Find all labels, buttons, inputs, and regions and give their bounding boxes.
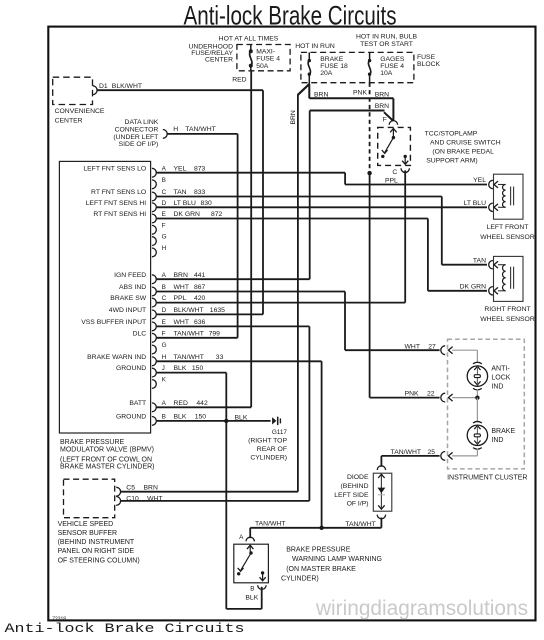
pin H of data link connector [163, 130, 167, 139]
pin C5 of VSS buffer [116, 487, 120, 496]
svg-text:150: 150 [192, 365, 204, 372]
wire TAN/WHT 33 down to warning lamp junction [321, 361, 323, 528]
pin D1 [93, 86, 97, 95]
svg-text:H: H [162, 354, 167, 361]
svg-text:REAR OF: REAR OF [257, 446, 287, 453]
svg-text:(RIGHT TOP: (RIGHT TOP [248, 437, 287, 444]
svg-text:BLK: BLK [174, 365, 187, 372]
pin E of BPMV [152, 322, 156, 331]
svg-text:867: 867 [194, 284, 206, 291]
svg-text:TAN/WHT: TAN/WHT [255, 521, 285, 528]
vehicle speed sensor buffer [64, 479, 115, 518]
svg-text:DLC: DLC [133, 330, 147, 337]
pin C10 of VSS buffer [116, 497, 120, 506]
svg-text:B: B [162, 177, 166, 184]
wire WHT 636 to VSS buffer C10 [308, 326, 310, 501]
wire TAN/WHT from diode to junction [377, 515, 385, 519]
svg-text:BRAKE: BRAKE [491, 428, 515, 435]
svg-text:C5: C5 [126, 484, 135, 491]
wire WHT 867 to instrument cluster pin 27 [344, 292, 346, 351]
svg-text:SENSOR BUFFER: SENSOR BUFFER [58, 530, 118, 537]
svg-text:442: 442 [196, 400, 208, 407]
svg-text:872: 872 [211, 211, 223, 218]
svg-text:PANEL ON RIGHT SIDE: PANEL ON RIGHT SIDE [58, 548, 135, 555]
wire BLK 150 from BPMV pin B [157, 420, 271, 422]
svg-text:SUPPORT ARM): SUPPORT ARM) [426, 158, 478, 165]
svg-text:RED: RED [232, 76, 246, 83]
wire TAN/WHT from cluster pin 25 to diode [381, 455, 439, 457]
svg-text:E: E [162, 319, 166, 326]
pin C of TCC switch [401, 168, 409, 172]
svg-text:C: C [392, 169, 397, 176]
pin 22 of instrument cluster [441, 393, 445, 402]
wire BRN diagonal from brake fuse [298, 84, 309, 95]
fuse block [301, 52, 414, 82]
wire TAN 833 from BPMV pin C [157, 196, 442, 198]
pin 2 of left front sensor [489, 203, 493, 211]
pin A of BPMV [152, 275, 156, 284]
svg-text:BRAKE WARN IND: BRAKE WARN IND [87, 354, 146, 361]
wire TAN jog to right front wheel sensor [441, 197, 443, 265]
wire BLK ground to brake warning switch pin B [225, 421, 227, 609]
svg-text:10A: 10A [380, 70, 393, 77]
svg-text:873: 873 [194, 165, 206, 172]
svg-text:G117: G117 [272, 429, 288, 436]
pin E of BPMV [152, 214, 156, 223]
anti-lock indicator lamp [467, 366, 487, 386]
svg-text:B: B [250, 586, 254, 593]
pin G of BPMV [152, 237, 156, 246]
switch A contact [247, 545, 253, 549]
svg-text:BATT: BATT [129, 400, 146, 407]
switch lever arm [241, 553, 251, 570]
svg-text:(ON MASTER BRAKE: (ON MASTER BRAKE [286, 566, 356, 573]
wire RED 442 from BPMV pin A [157, 406, 252, 408]
svg-text:RED: RED [174, 400, 188, 407]
wire WHT 636 from BPMV pin E [157, 325, 310, 327]
svg-text:F: F [162, 330, 166, 337]
wire RED from maxi-fuse to BPMV pin A [250, 71, 252, 408]
svg-text:IND: IND [491, 437, 503, 444]
wire TAN/WHT from junction to switch pin A [249, 528, 251, 538]
pin B of brake warning switch [258, 585, 266, 589]
left front wheel sensor box [494, 174, 524, 219]
svg-text:C: C [162, 295, 167, 302]
pin D of BPMV [152, 203, 156, 212]
svg-text:PNK: PNK [405, 391, 419, 398]
svg-text:G: G [162, 342, 167, 349]
svg-text:CONVENIENCE: CONVENIENCE [55, 108, 105, 115]
pin 1 of left front sensor [489, 180, 493, 188]
junction dot TAN/WHT [319, 526, 323, 530]
diode symbol [380, 474, 382, 509]
pin K of BPMV [152, 380, 156, 389]
svg-text:TCC/STOPLAMP: TCC/STOPLAMP [425, 130, 478, 137]
svg-text:LEFT SIDE: LEFT SIDE [334, 492, 369, 499]
svg-text:TAN/WHT: TAN/WHT [185, 126, 215, 133]
junction dot PNK [367, 171, 371, 175]
svg-text:PPL: PPL [385, 177, 398, 184]
svg-text:PNK: PNK [353, 89, 367, 96]
svg-text:PPL: PPL [174, 295, 187, 302]
svg-text:HOT IN RUN, BULB: HOT IN RUN, BULB [356, 33, 418, 40]
svg-text:DIODE: DIODE [347, 474, 369, 481]
pin D of BPMV [152, 310, 156, 319]
pin B of BPMV [152, 417, 156, 426]
wire BLK 150 from BPMV pin J [157, 372, 227, 374]
pin A of BPMV [152, 168, 156, 177]
svg-text:BRAKE PRESSURE: BRAKE PRESSURE [286, 547, 351, 554]
svg-text:830: 830 [201, 200, 213, 207]
svg-text:OF STEERING COLUMN): OF STEERING COLUMN) [58, 557, 140, 564]
wire PPL 420 from BPMV pin C [157, 302, 406, 304]
svg-text:HOT IN RUN: HOT IN RUN [295, 43, 335, 50]
svg-text:C: C [162, 189, 167, 196]
svg-text:WARNING LAMP WARNING: WARNING LAMP WARNING [292, 556, 382, 563]
pin H of BPMV [152, 357, 156, 366]
svg-text:F: F [162, 222, 166, 229]
svg-text:DK GRN: DK GRN [460, 284, 487, 291]
svg-text:RT FNT SENS HI: RT FNT SENS HI [93, 211, 146, 218]
svg-text:TAN/WHT: TAN/WHT [174, 330, 204, 337]
svg-text:4WD INPUT: 4WD INPUT [109, 307, 146, 314]
svg-text:BLK: BLK [245, 594, 258, 601]
wire BLK/WHT 1635 from BPMV pin D [157, 313, 263, 315]
svg-text:INSTRUMENT CLUSTER: INSTRUMENT CLUSTER [447, 474, 527, 481]
wire from anti-lock lamp to junction [476, 389, 478, 398]
pin G of BPMV [152, 345, 156, 354]
svg-text:TAN/WHT: TAN/WHT [174, 354, 204, 361]
svg-text:DATA LINK: DATA LINK [125, 119, 159, 126]
wire inside cluster from pin 22 [452, 397, 477, 399]
svg-text:BRAKE SW: BRAKE SW [110, 295, 146, 302]
pin C of BPMV [152, 298, 156, 307]
svg-text:LEFT FRONT: LEFT FRONT [487, 224, 529, 231]
pin 25 of instrument cluster [441, 452, 445, 461]
pin B of BPMV [152, 180, 156, 189]
svg-text:J: J [162, 365, 165, 372]
svg-text:HOT AT ALL TIMES: HOT AT ALL TIMES [219, 35, 279, 42]
svg-text:BLOCK: BLOCK [417, 61, 441, 68]
svg-text:RT FNT SENS LO: RT FNT SENS LO [91, 189, 146, 196]
svg-text:Anti-lock Brake Circuits: Anti-lock Brake Circuits [5, 621, 245, 636]
svg-text:TAN/WHT: TAN/WHT [345, 521, 375, 528]
svg-text:WHT: WHT [174, 319, 189, 326]
svg-text:ANTI-: ANTI- [491, 366, 510, 373]
svg-text:22: 22 [427, 391, 435, 398]
pin F of BPMV [152, 333, 156, 342]
svg-text:GROUND: GROUND [116, 365, 146, 372]
pin F of BPMV [152, 225, 156, 234]
svg-text:TEST OR START: TEST OR START [360, 41, 413, 48]
svg-text:CENTER: CENTER [55, 117, 83, 124]
wire PNK to instrument cluster pin 22 [369, 173, 371, 398]
svg-text:50A: 50A [256, 63, 269, 70]
svg-text:TAN: TAN [174, 189, 187, 196]
svg-text:YEL: YEL [174, 165, 187, 172]
wire BRN from TCC switch pin F to BPMV pin A [384, 112, 393, 121]
brake fuse 18 20A [308, 52, 310, 60]
pin H of BPMV [152, 248, 156, 257]
wire DK GRN jog to right front wheel sensor [427, 219, 429, 291]
svg-text:G: G [162, 234, 167, 241]
svg-text:FUSE 18: FUSE 18 [320, 63, 348, 70]
svg-text:WHEEL SENSOR: WHEEL SENSOR [480, 316, 535, 323]
svg-text:D: D [162, 200, 167, 207]
wire BRN from brake fuse to TCC switch pin F [308, 84, 310, 98]
wire PNK from gages fuse (dashed) [369, 83, 371, 171]
pin A of BPMV [152, 403, 156, 412]
svg-text:WHT: WHT [405, 343, 420, 350]
brake indicator lamp [467, 425, 487, 445]
svg-text:BLK/WHT: BLK/WHT [112, 83, 142, 90]
svg-text:LEFT FNT SENS HI: LEFT FNT SENS HI [86, 200, 147, 207]
svg-text:LT BLU: LT BLU [464, 200, 487, 207]
svg-text:FUSE 4: FUSE 4 [256, 56, 280, 63]
TCC/stoplamp and cruise switch [378, 127, 411, 165]
svg-text:LT BLU: LT BLU [174, 200, 197, 207]
svg-text:TAN/WHT: TAN/WHT [391, 449, 421, 456]
wire LT BLU 830 from BPMV pin D [157, 206, 487, 208]
maxi-fuse 4 50A [250, 45, 252, 52]
wire WHT 867 from BPMV pin B [157, 291, 345, 293]
svg-text:BLK: BLK [174, 414, 187, 421]
svg-text:K: K [162, 377, 167, 384]
svg-text:F: F [383, 116, 387, 123]
svg-text:BRN: BRN [314, 91, 328, 98]
svg-text:636: 636 [194, 319, 206, 326]
svg-text:MODULATOR VALVE (BPMV): MODULATOR VALVE (BPMV) [60, 446, 154, 453]
wire BLK 150 ground down from BPMV pin J [225, 373, 227, 421]
svg-text:25: 25 [427, 449, 435, 456]
switch lever [392, 136, 395, 139]
svg-text:A: A [162, 165, 167, 172]
svg-text:BLK/WHT: BLK/WHT [174, 307, 204, 314]
wire inside cluster to anti-lock lamp [452, 349, 477, 351]
right front wheel sensor box [494, 256, 524, 301]
svg-text:BRN: BRN [174, 272, 188, 279]
svg-text:B: B [162, 284, 166, 291]
svg-text:(BEHIND: (BEHIND [341, 483, 369, 490]
svg-text:(LEFT FRONT OF COWL ON: (LEFT FRONT OF COWL ON [60, 456, 152, 463]
svg-text:833: 833 [194, 189, 206, 196]
svg-text:A: A [239, 534, 244, 541]
svg-text:LEFT FNT SENS LO: LEFT FNT SENS LO [83, 165, 146, 172]
svg-text:27: 27 [428, 343, 436, 350]
svg-text:(ON BRAKE PEDAL: (ON BRAKE PEDAL [432, 149, 494, 156]
svg-text:A: A [162, 400, 167, 407]
svg-text:H: H [162, 245, 167, 252]
svg-text:FUSE: FUSE [417, 54, 436, 61]
svg-text:BRAKE: BRAKE [320, 56, 344, 63]
brake pressure modulator valve (BPMV) connector box [59, 161, 150, 433]
svg-text:BRN: BRN [375, 91, 389, 98]
svg-text:WHEEL SENSOR: WHEEL SENSOR [480, 234, 535, 241]
wire from brake lamp to pin 25 [476, 449, 478, 456]
svg-text:AND CRUISE SWITCH: AND CRUISE SWITCH [430, 140, 501, 147]
svg-text:IGN FEED: IGN FEED [114, 272, 146, 279]
svg-text:VEHICLE SPEED: VEHICLE SPEED [58, 521, 114, 528]
svg-text:A: A [162, 272, 167, 279]
gages fuse 4 10A [369, 52, 371, 60]
svg-text:799: 799 [209, 330, 221, 337]
svg-text:33: 33 [216, 354, 224, 361]
svg-text:150: 150 [195, 414, 207, 421]
switch contact to pin B [261, 571, 264, 574]
svg-text:20A: 20A [320, 70, 333, 77]
svg-text:MAXI-: MAXI- [256, 49, 275, 56]
svg-text:OF I/P): OF I/P) [347, 501, 369, 508]
underhood fuse/relay center [237, 45, 290, 71]
junction dot in cluster [475, 396, 479, 400]
svg-text:WHT: WHT [174, 284, 189, 291]
ground G117 [272, 417, 276, 424]
svg-text:YEL: YEL [473, 177, 486, 184]
wire YEL jog to left front wheel sensor [344, 173, 346, 185]
svg-text:B: B [162, 414, 166, 421]
wire DK GRN 872 from BPMV pin E [157, 218, 428, 220]
svg-text:ABS IND: ABS IND [119, 284, 146, 291]
svg-text:BRN: BRN [144, 484, 158, 491]
brake pressure warning switch box [234, 544, 269, 583]
pin 27 of instrument cluster [441, 346, 445, 355]
svg-text:BRN: BRN [290, 110, 297, 124]
pin 2 of right front sensor [489, 287, 493, 295]
svg-text:(BEHIND INSTRUMENT: (BEHIND INSTRUMENT [58, 539, 135, 546]
svg-text:TAN: TAN [473, 257, 486, 264]
wire TAN/WHT 33 from BPMV pin H [157, 360, 322, 362]
svg-text:CYLINDER): CYLINDER) [250, 455, 287, 462]
convenience center [53, 77, 93, 104]
svg-text:RIGHT FRONT: RIGHT FRONT [484, 306, 530, 313]
svg-text:LOCK: LOCK [491, 375, 510, 382]
wire from junction to brake lamp [476, 398, 478, 423]
svg-text:BLK: BLK [235, 414, 248, 421]
svg-text:CYLINDER): CYLINDER) [281, 575, 319, 582]
svg-text:GAGES: GAGES [380, 56, 405, 63]
svg-text:(UNDER LEFT: (UNDER LEFT [113, 134, 158, 141]
svg-text:CONNECTOR: CONNECTOR [115, 126, 159, 133]
pin C of BPMV [152, 192, 156, 201]
svg-text:D1: D1 [99, 83, 108, 90]
instrument cluster box [448, 339, 525, 469]
svg-text:E: E [162, 211, 166, 218]
svg-text:BRN: BRN [375, 103, 389, 110]
svg-text:FUSE 4: FUSE 4 [380, 63, 404, 70]
pin 1 of right front sensor [489, 261, 493, 269]
coil of left front sensor [498, 184, 506, 186]
wire BRN 441 from BPMV pin A [157, 278, 310, 280]
svg-text:420: 420 [194, 295, 206, 302]
switch contact to pin C [404, 155, 407, 158]
coil of right front sensor [498, 264, 506, 266]
svg-text:SIDE OF I/P): SIDE OF I/P) [119, 141, 159, 148]
svg-text:IND: IND [491, 384, 503, 391]
svg-text:GROUND: GROUND [116, 414, 146, 421]
svg-text:1635: 1635 [210, 307, 225, 314]
diode box [377, 466, 385, 470]
junction dot ground [224, 419, 228, 423]
wire TAN/WHT 799 from BPMV pin F [157, 337, 238, 339]
svg-text:BRAKE MASTER CYLINDER): BRAKE MASTER CYLINDER) [60, 464, 155, 471]
svg-text:BRAKE PRESSURE: BRAKE PRESSURE [60, 439, 125, 446]
svg-text:D: D [162, 307, 167, 314]
pin J of BPMV [152, 368, 156, 377]
svg-text:DK GRN: DK GRN [174, 211, 201, 218]
svg-text:CENTER: CENTER [205, 57, 233, 64]
svg-text:441: 441 [194, 272, 206, 279]
pin B of BPMV [152, 287, 156, 296]
svg-text:wiringdiagramsolutions: wiringdiagramsolutions [315, 596, 528, 620]
wire YEL 873 from BPMV pin A [157, 172, 346, 174]
svg-text:VSS BUFFER INPUT: VSS BUFFER INPUT [81, 319, 146, 326]
wire BRN vertical feed to VSS buffer C5 [297, 94, 299, 492]
svg-text:H: H [173, 126, 178, 133]
